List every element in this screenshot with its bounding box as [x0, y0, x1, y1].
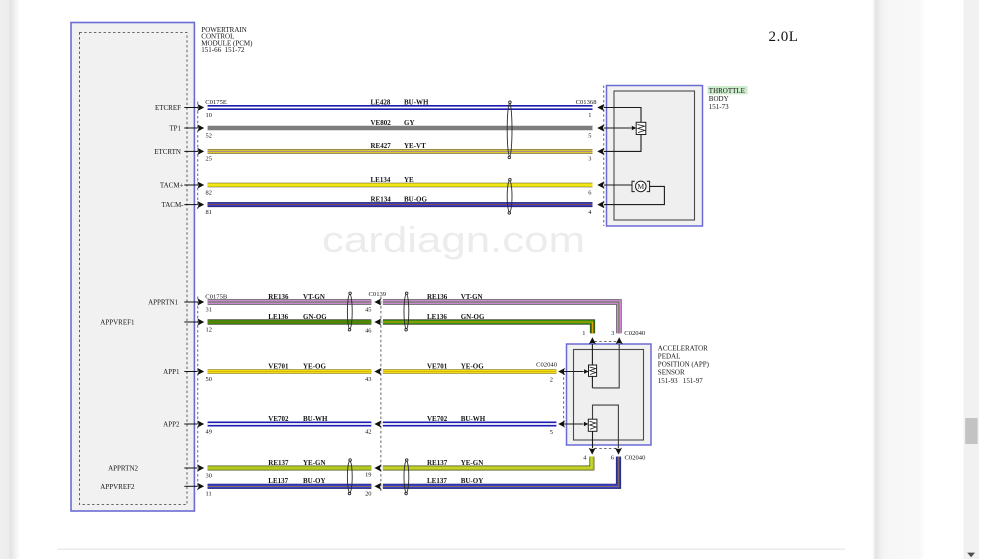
- svg-text:cardiagn.com: cardiagn.com: [322, 219, 585, 260]
- svg-text:12: 12: [206, 326, 212, 333]
- wire label LE428 BU-WH: [371, 98, 430, 106]
- wire stub TP1: [184, 127, 197, 129]
- svg-text:APPRTN1: APPRTN1: [148, 299, 178, 307]
- svg-text:TACM+: TACM+: [160, 182, 184, 190]
- wire label VE702 BU-WH right: [427, 415, 486, 423]
- connector C02040 left dashed line: [563, 373, 565, 425]
- wire LE137 BU-OY left (APPVREF2 to C0139 pin20): [208, 484, 372, 489]
- scrollbar thumb: [965, 418, 977, 444]
- svg-text:3: 3: [611, 330, 614, 337]
- APP internal wiring potentiometer 2: [593, 405, 619, 448]
- svg-text:25: 25: [206, 156, 212, 163]
- wire label VE702 BU-WH: [268, 415, 328, 423]
- wire label RE136 VT-GN right: [427, 293, 483, 301]
- svg-text:YE: YE: [404, 176, 414, 184]
- arrow C02040 pin 4: [589, 448, 596, 455]
- svg-text:GY: GY: [404, 119, 415, 127]
- wire label RE137 YE-GN: [268, 459, 325, 467]
- APP wiper 2 line: [564, 423, 584, 425]
- svg-text:RE134: RE134: [371, 195, 392, 203]
- potentiometer APP2: [588, 419, 597, 431]
- wire LE136 GN-OG right (C0139 to APP pin1): [383, 322, 593, 333]
- wire label VE802 GY: [371, 119, 415, 127]
- wire VE701 YE-OG right (C0139 to APP pin2): [383, 369, 557, 373]
- arrow pin 12: [197, 318, 204, 325]
- wire label LE136 GN-OG right: [427, 313, 485, 321]
- C0139 pin numbers: [365, 306, 371, 497]
- wire label VE701 YE-OG: [268, 362, 326, 370]
- wire LE137 BU-OY right (C0139 to APP pin6): [383, 457, 619, 487]
- APP internal wiring potentiometer 1: [591, 344, 593, 388]
- wire label VE701 YE-OG right: [427, 362, 484, 370]
- APP wiper 1 line: [564, 371, 584, 373]
- arrow pin 82: [197, 181, 204, 188]
- svg-text:C02040: C02040: [625, 454, 647, 461]
- wire label LE137 BU-OY right: [427, 477, 483, 485]
- svg-text:C0175B: C0175B: [205, 293, 228, 300]
- APP pin3 internal path: [592, 344, 619, 388]
- wire RE136 VT-GN right (C0139 to APP pin3): [383, 302, 619, 333]
- svg-text:3: 3: [588, 156, 591, 163]
- svg-text:APPVREF2: APPVREF2: [100, 483, 135, 491]
- svg-text:M: M: [637, 182, 644, 191]
- wire stub APPRTN2: [184, 467, 197, 469]
- svg-text:151-93 151-97: 151-93 151-97: [658, 377, 703, 385]
- connector C0139 dashed line: [380, 297, 382, 494]
- arrow pin 25: [197, 148, 204, 155]
- arrow pin 30: [197, 464, 204, 471]
- svg-text:5: 5: [550, 429, 553, 436]
- svg-text:ETCRTN: ETCRTN: [154, 148, 181, 156]
- svg-text:BU-OY: BU-OY: [461, 477, 484, 485]
- arrow pin 10: [197, 104, 204, 111]
- potentiometer APP1: [589, 365, 597, 376]
- svg-text:5: 5: [588, 132, 591, 139]
- arrow pin 49: [197, 420, 204, 427]
- svg-text:YE-GN: YE-GN: [303, 459, 326, 467]
- arrow pin 11: [197, 483, 204, 490]
- arrow C0139 pin 42: [374, 420, 381, 427]
- svg-text:RE427: RE427: [371, 142, 392, 150]
- arrow TB pin 1: [597, 104, 604, 111]
- twisted pair loop (ETC wires): [507, 101, 512, 159]
- svg-text:20: 20: [365, 491, 371, 498]
- arrow pin 81: [197, 201, 204, 208]
- op PCM module box U1: [71, 23, 194, 512]
- svg-text:RE136: RE136: [268, 293, 289, 301]
- wire label RE427 YE-VT: [371, 142, 427, 150]
- svg-text:19: 19: [365, 471, 371, 478]
- svg-text:VE702: VE702: [427, 415, 448, 423]
- svg-text:VT-GN: VT-GN: [461, 293, 483, 301]
- svg-text:151-73: 151-73: [709, 103, 729, 111]
- arrow C02040 pin 1: [589, 337, 596, 344]
- svg-text:49: 49: [206, 428, 212, 435]
- svg-text:LE134: LE134: [371, 176, 391, 184]
- wiper arrow APP2: [584, 422, 588, 426]
- svg-text:BU-OY: BU-OY: [303, 477, 326, 485]
- component label THROTTLE BODY 151-73: [708, 86, 748, 111]
- svg-text:LE428: LE428: [371, 98, 391, 106]
- svg-text:YE-GN: YE-GN: [461, 459, 484, 467]
- svg-text:BU-WH: BU-WH: [461, 415, 486, 423]
- svg-text:82: 82: [206, 189, 212, 196]
- svg-text:2.0L: 2.0L: [769, 29, 799, 45]
- svg-text:BU-WH: BU-WH: [404, 98, 429, 106]
- TB pin numbers: [588, 112, 592, 216]
- arrow TB pin 4: [597, 201, 604, 208]
- twisted pair loop (TACM wires): [507, 178, 512, 214]
- arrow pin 31: [197, 298, 204, 305]
- svg-text:10: 10: [206, 112, 212, 119]
- svg-text:VE802: VE802: [371, 119, 392, 127]
- arrow C0139 pin 19: [374, 464, 381, 471]
- arrow C02040 pin 5: [558, 420, 565, 427]
- svg-text:ETCREF: ETCREF: [155, 104, 181, 112]
- svg-text:VE701: VE701: [427, 362, 448, 370]
- wire stub TACM+: [184, 184, 197, 186]
- svg-text:151-66 151-72: 151-66 151-72: [201, 46, 245, 54]
- twisted pair loop (APPRTN2/APPVREF2 right): [404, 459, 409, 495]
- TB motor wiring: [604, 185, 665, 205]
- arrow C0139 pin 20: [374, 483, 381, 490]
- svg-text:LE137: LE137: [427, 477, 447, 485]
- wire RE136 VT-GN left (APPRTN1 to C0139 pin45): [208, 299, 372, 304]
- svg-text:C01368: C01368: [576, 99, 598, 106]
- wire VE702 BU-WH right (C0139 to APP pin5): [383, 422, 557, 427]
- wire VE702 BU-WH left (APP2 to C0139 pin42): [208, 422, 372, 427]
- twisted pair loop (APPRTN1/APPVREF1 right): [404, 292, 409, 331]
- arrow C0139 pin 43: [374, 368, 381, 375]
- wire label RE136 VT-GN: [268, 293, 325, 301]
- wire label RE134 BU-OG: [371, 195, 428, 203]
- wire label LE136 GN-OG: [268, 313, 327, 321]
- arrow C02040 pin 3: [616, 337, 623, 344]
- svg-text:LE136: LE136: [268, 313, 288, 321]
- svg-text:SENSOR: SENSOR: [658, 369, 685, 377]
- svg-text:APP1: APP1: [163, 368, 180, 376]
- wire label LE137 BU-OY: [268, 477, 325, 485]
- svg-text:C0139: C0139: [369, 291, 387, 298]
- wire stub APP2: [184, 423, 197, 425]
- PCM block label POWERTRAIN CONTROL MODULE (PCM) 151-66 151-72: [201, 26, 253, 54]
- wire stub APPVREF2: [184, 485, 197, 487]
- svg-text:THROTTLE: THROTTLE: [709, 87, 745, 95]
- wire stub ETCREF: [184, 107, 197, 109]
- svg-text:BU-WH: BU-WH: [303, 415, 328, 423]
- svg-text:APP2: APP2: [163, 421, 180, 429]
- svg-text:BU-OG: BU-OG: [404, 195, 428, 203]
- svg-text:GN-OG: GN-OG: [303, 313, 327, 321]
- accelerator pedal position sensor box: [567, 344, 652, 445]
- svg-text:TP1: TP1: [169, 125, 181, 133]
- twisted pair loop (APPRTN2/APPVREF2 left): [347, 459, 352, 495]
- wiper arrow APP1: [584, 369, 588, 373]
- svg-text:ACCELERATOR: ACCELERATOR: [658, 344, 708, 352]
- wire RE137 YE-GN right (C0139 to APP pin4): [383, 457, 592, 468]
- svg-text:RE136: RE136: [427, 293, 448, 301]
- scrollbar down arrow: [967, 553, 975, 558]
- arrow C02040 pin 2: [558, 368, 565, 375]
- connector C0175E dashed line: [197, 102, 199, 210]
- svg-text:52: 52: [206, 132, 212, 139]
- svg-text:45: 45: [365, 306, 371, 313]
- wire RE137 YE-GN left (APPRTN2 to C0139 pin19): [208, 466, 372, 471]
- wire LE136 GN-OG left (APPVREF1 to C0139 pin46): [208, 319, 372, 324]
- svg-text:6: 6: [611, 454, 614, 461]
- wire VE701 YE-OG left (APP1 to C0139 pin43): [208, 369, 372, 373]
- svg-text:50: 50: [206, 376, 212, 383]
- arrow C0139 pin 45: [374, 298, 381, 305]
- svg-text:46: 46: [365, 327, 371, 334]
- svg-text:VE702: VE702: [268, 415, 289, 423]
- connector C0175B dashed line: [197, 297, 199, 491]
- svg-text:YE-VT: YE-VT: [404, 142, 426, 150]
- svg-text:C02040: C02040: [536, 361, 558, 368]
- wire LE134 YE (TACM+ to TB pin6): [208, 183, 593, 188]
- wire RE134 BU-OG (TACM- to TB pin4): [208, 202, 593, 207]
- potentiometer (throttle position sensor): [636, 122, 646, 134]
- svg-text:1: 1: [588, 112, 591, 119]
- svg-text:GN-OG: GN-OG: [461, 313, 485, 321]
- component label ACCELERATOR PEDAL POSITION (APP) SENSOR: [658, 344, 710, 384]
- svg-text:APPVREF1: APPVREF1: [100, 319, 135, 327]
- svg-text:APPRTN2: APPRTN2: [108, 465, 138, 473]
- arrow pin 52: [197, 124, 204, 131]
- svg-text:6: 6: [588, 189, 591, 196]
- connector C02040 top dashed line: [595, 340, 618, 342]
- svg-text:VT-GN: VT-GN: [303, 293, 325, 301]
- wire label RE137 YE-GN right: [427, 459, 483, 467]
- arrow TB pin 5: [597, 124, 604, 131]
- PCM pin numbers: [206, 112, 212, 498]
- wire stub APPRTN1: [184, 301, 197, 303]
- arrow TB pin 3: [597, 148, 604, 155]
- svg-text:11: 11: [206, 491, 212, 498]
- PCM pin stubs and arrows: [184, 108, 197, 487]
- svg-text:C02040: C02040: [624, 330, 646, 337]
- svg-text:VE701: VE701: [268, 362, 289, 370]
- arrow pin 50: [197, 368, 204, 375]
- wiper arrow into potentiometer: [632, 126, 636, 130]
- svg-text:YE-OG: YE-OG: [303, 362, 327, 370]
- svg-text:30: 30: [206, 472, 212, 479]
- wire LE428 BU-WH (ETCREF to TB pin1): [208, 105, 593, 110]
- wire stub ETCRTN: [184, 150, 197, 152]
- svg-text:YE-OG: YE-OG: [461, 362, 485, 370]
- wire stub APP1: [184, 371, 197, 373]
- throttle body box: [607, 86, 703, 227]
- svg-text:31: 31: [206, 306, 212, 313]
- svg-text:LE137: LE137: [268, 477, 288, 485]
- wire VE802 GY (TP1 to TB pin5): [208, 126, 593, 131]
- arrow C02040 pin 6: [615, 448, 622, 455]
- svg-text:BODY: BODY: [709, 95, 729, 103]
- motor M1: [632, 181, 650, 192]
- TB internal wiring to potentiometer: [604, 108, 641, 152]
- svg-text:2: 2: [550, 377, 553, 384]
- arrow TB pin 6: [597, 181, 604, 188]
- wire RE427 YE-VT (ETCRTN to TB pin3): [208, 149, 593, 154]
- svg-text:TACM-: TACM-: [162, 201, 185, 209]
- twisted pair loop (APPRTN1/APPVREF1 left): [347, 292, 352, 331]
- svg-text:PEDAL: PEDAL: [658, 353, 681, 361]
- connector C01368 dashed line: [603, 86, 605, 227]
- scrollbar track: [964, 0, 980, 559]
- svg-text:81: 81: [206, 209, 212, 216]
- connector C02040 bottom dashed line: [595, 448, 617, 450]
- svg-text:43: 43: [365, 376, 371, 383]
- wire stub TACM-: [184, 204, 197, 206]
- C02040 pin numbers: [550, 330, 615, 461]
- svg-text:RE137: RE137: [268, 459, 289, 467]
- wire label LE134 YE: [371, 176, 415, 184]
- svg-text:42: 42: [365, 428, 371, 435]
- arrow C0139 pin 46: [374, 318, 381, 325]
- svg-text:1: 1: [582, 330, 585, 337]
- svg-text:POSITION (APP): POSITION (APP): [658, 361, 710, 369]
- wire stub APPVREF1: [184, 321, 197, 323]
- svg-text:LE136: LE136: [427, 313, 447, 321]
- svg-text:RE137: RE137: [427, 459, 448, 467]
